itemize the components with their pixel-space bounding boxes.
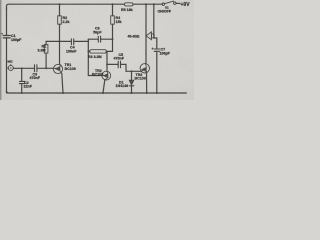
resistor R4 — [111, 16, 115, 24]
wire R1 bottom — [45, 53, 47, 68]
junction TR1 collector node — [59, 40, 61, 42]
wire C4 left — [60, 40, 72, 42]
resistor R3 — [90, 50, 107, 53]
wire line B lower — [156, 51, 158, 93]
junction C5/TR2 collector line — [106, 64, 108, 66]
junction TR3 collector line/top rail — [145, 3, 147, 5]
wire node B2 vertical — [88, 39, 102, 75]
capacitor C6 — [98, 36, 100, 42]
microphone input — [7, 64, 14, 70]
wire W1 feedback to R1 — [46, 41, 59, 44]
junction D1/TR3 base wire — [131, 70, 133, 72]
wire TR3 emitter — [146, 73, 148, 93]
junction TR3 emitter/bottom rail — [146, 92, 148, 94]
wire TR3 collector line A — [145, 4, 147, 64]
capacitor C4 — [71, 39, 73, 45]
wire R3 right link — [106, 50, 112, 52]
resistor R2 — [58, 16, 62, 24]
resistor R1 — [44, 45, 48, 54]
wire R2 top — [59, 4, 61, 16]
junction R2/top rail — [59, 3, 61, 5]
junction C2/input wire — [21, 67, 23, 69]
scan edge band — [0, 0, 1, 100]
wire R4 bottom node V4 — [112, 24, 114, 51]
wire line B upper — [154, 4, 157, 49]
transistor TR3 — [140, 64, 149, 73]
junction C6/R4 line — [112, 38, 114, 40]
junction R4/top rail — [112, 3, 114, 5]
speaker LS1 — [146, 32, 154, 40]
wire C6 left — [88, 38, 98, 40]
wire C6 right — [101, 38, 113, 40]
wire R3 left stub — [88, 50, 89, 52]
wire R2 bottom to TR1 collector — [59, 24, 61, 64]
capacitor C7 — [154, 49, 160, 51]
wire C5 right to TR3 base — [121, 64, 141, 71]
wire mic to C3 — [13, 67, 34, 69]
transistor TR2 — [102, 71, 111, 80]
wire top +9V rail — [7, 4, 163, 10]
junction D1/bottom rail — [131, 92, 133, 94]
wire left rail — [6, 8, 8, 93]
junction R3/TR2 base line — [87, 51, 89, 53]
capacitor C2 — [19, 68, 25, 93]
scan grain overlay — [0, 0, 194, 100]
wire bottom rail — [7, 91, 187, 93]
resistor R5 — [125, 3, 134, 6]
wire TR2 collector drop — [106, 51, 108, 71]
capacitor C1 — [3, 36, 10, 38]
junction TR2 emitter/bottom rail — [102, 92, 104, 94]
capacitor C5 — [118, 61, 120, 68]
wire TR1 base — [37, 67, 54, 69]
wire TR1 emitter — [62, 73, 63, 93]
wire C4 right to node B2 — [74, 40, 89, 42]
junction R1/TR1 base — [45, 67, 47, 69]
labels — [1, 2, 190, 88]
junction TR1 emitter/bottom rail — [62, 92, 64, 94]
switch S1 — [162, 1, 180, 5]
wire TR2 emitter — [103, 80, 105, 93]
junction C2/bottom rail — [21, 92, 23, 94]
junction C4/TR2 base line — [87, 41, 89, 43]
junction C7 line/top rail — [153, 3, 155, 5]
diode D1 — [129, 71, 134, 93]
transistor TR1 — [53, 64, 62, 73]
capacitor C3 — [35, 65, 37, 72]
wire C5 left — [107, 63, 118, 65]
wire R4 top — [112, 4, 114, 16]
junction C7/bottom rail — [156, 92, 158, 94]
